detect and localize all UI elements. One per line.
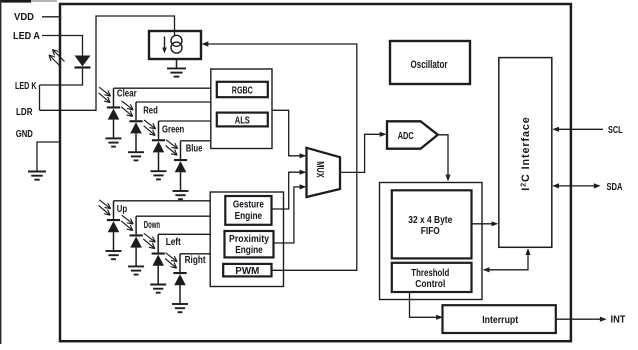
wire current source to ground (176, 59, 178, 68)
current source arrow symbol (164, 37, 166, 50)
svg-text:Control: Control (415, 279, 445, 290)
ground (GND pin) (28, 171, 46, 173)
ground (Clear photodiode) (106, 137, 122, 139)
wire I2C interface to Threshold container (bidirectional) (488, 250, 528, 270)
svg-text:SCL: SCL (608, 124, 623, 136)
light arrows (Left) (144, 233, 156, 242)
photodiode Right (173, 272, 186, 274)
svg-text:I2C Interface: I2C Interface (520, 116, 532, 190)
wire Up photodiode to gesture block (114, 200, 211, 202)
block PWM (223, 264, 271, 277)
wire INT output (556, 318, 601, 320)
svg-text:SDA: SDA (607, 181, 623, 193)
light arrows (Green) (144, 120, 156, 129)
oscillator block (390, 41, 470, 84)
light arrows (Clear) (99, 87, 111, 96)
wire stub into current source (174, 31, 176, 36)
wire FIFO to I2C interface (472, 223, 493, 225)
wire Clear photodiode to RGBC/ALS block (114, 87, 212, 89)
block Threshold Control (392, 263, 472, 292)
svg-text:Proximity: Proximity (229, 234, 269, 245)
wire SDA (bidirectional) (558, 185, 596, 187)
ground (current source) (167, 67, 186, 69)
block Proximity Engine (225, 231, 274, 257)
data container (FIFO + Threshold Control) (380, 183, 483, 300)
ground (Red photodiode) (128, 151, 144, 153)
LED light emission arrows (53, 50, 65, 62)
ground (Right photodiode) (172, 303, 188, 305)
ground (Up photodiode) (106, 250, 122, 252)
svg-text:LED K: LED K (15, 80, 37, 92)
current source (LED driver) box (149, 31, 201, 59)
block RGBC (217, 82, 268, 97)
ground (Green photodiode) (151, 170, 167, 172)
light arrows (Blue) (166, 140, 178, 149)
svg-text:Engine: Engine (235, 211, 263, 222)
wire Blue photodiode to RGBC/ALS block (181, 140, 212, 142)
wire RGBC/ALS output to MUX input 1 (272, 110, 300, 156)
svg-text:Red: Red (143, 105, 158, 117)
svg-text:Clear: Clear (117, 88, 137, 100)
svg-text:Engine: Engine (235, 245, 263, 256)
wire LED A to LED anode (42, 36, 83, 56)
svg-text:Down: Down (144, 219, 160, 231)
wire Green photodiode to RGBC/ALS block (159, 120, 212, 122)
wire SCL input (558, 128, 604, 130)
svg-text:Interrupt: Interrupt (482, 314, 518, 326)
svg-text:Gesture: Gesture (233, 200, 264, 211)
block Interrupt (443, 305, 556, 333)
light arrows (Red) (122, 101, 134, 110)
svg-text:32 x 4 Byte: 32 x 4 Byte (408, 215, 452, 226)
wire Left photodiode to gesture block (158, 233, 211, 235)
svg-text:Left: Left (166, 236, 181, 248)
photodiode Blue (174, 159, 187, 161)
I2C interface block (499, 58, 552, 248)
wire LED K (LED cathode) (40, 69, 83, 85)
wire PWM to LED current source (208, 44, 357, 270)
svg-text:Up: Up (117, 203, 127, 215)
svg-text:RGBC: RGBC (232, 84, 253, 96)
wire VDD to chip edge (42, 16, 60, 18)
ground (Down photodiode) (128, 265, 144, 267)
ground (Blue photodiode) (173, 190, 189, 192)
svg-text:Threshold: Threshold (411, 268, 449, 279)
scan artifact: thin line along left edge (0, 0, 1, 344)
svg-text:Green: Green (162, 124, 184, 136)
MUX (analog multiplexer) (307, 148, 341, 197)
photodiode Down (130, 234, 143, 236)
photodiode Up (107, 219, 120, 221)
external jumper LED K to LDR (39, 85, 41, 110)
photodiode Clear (107, 106, 120, 108)
photodiode Green (152, 139, 165, 141)
svg-text:LDR: LDR (16, 106, 33, 118)
svg-text:Right: Right (185, 254, 206, 266)
block Gesture Engine (225, 196, 271, 225)
svg-text:PWM: PWM (235, 266, 259, 277)
wire LDR to current source (40, 16, 175, 110)
wire Threshold Control to Interrupt (410, 292, 437, 317)
photodiode Left (152, 253, 165, 255)
IR LED (emitter diode) (75, 56, 91, 67)
block ALS (217, 113, 268, 127)
svg-text:INT: INT (611, 314, 627, 326)
wire Red photodiode to RGBC/ALS block (136, 101, 211, 103)
block 32 x 4 Byte FIFO (392, 190, 472, 258)
ground (Left photodiode) (150, 284, 166, 286)
svg-text:Blue: Blue (186, 142, 203, 154)
wire MUX to ADC (340, 134, 380, 172)
wire Right photodiode to gesture block (180, 253, 211, 255)
wire Proximity Engine to MUX input 3 (274, 187, 301, 243)
wire Down photodiode to gesture block (136, 215, 211, 217)
chip boundary box (60, 4, 571, 341)
photodiode Red (129, 120, 142, 122)
svg-text:Oscillator: Oscillator (411, 59, 449, 71)
svg-text:ADC: ADC (398, 130, 414, 142)
ADC block (pentagon) (387, 121, 438, 148)
light arrows (Up) (99, 200, 111, 209)
light arrows (Right) (166, 253, 178, 262)
scan artifact: dark bar top-left (0, 0, 31, 3)
wire Gesture Engine to MUX input 2 (272, 172, 301, 209)
gesture photodiode array container (210, 192, 283, 287)
svg-text:LED A: LED A (13, 30, 40, 42)
light arrows (Down) (122, 215, 134, 224)
current source circles symbol (171, 35, 182, 46)
svg-text:ALS: ALS (235, 114, 250, 126)
svg-text:FIFO: FIFO (421, 226, 440, 237)
svg-text:GND: GND (16, 128, 33, 140)
svg-text:VDD: VDD (14, 11, 34, 23)
wire ADC to FIFO container (438, 135, 448, 176)
svg-text:MUX: MUX (314, 161, 325, 178)
wire GND pin (37, 142, 60, 172)
RGBC/ALS photodiode array container (211, 69, 272, 149)
